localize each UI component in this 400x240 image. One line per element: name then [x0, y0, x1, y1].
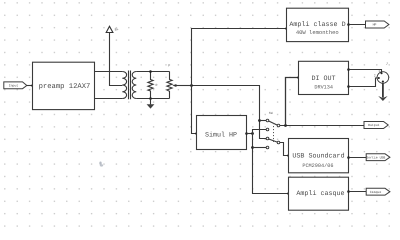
svg-text:PCM2904/06: PCM2904/06 [302, 163, 333, 169]
switch throw contact 2 [266, 128, 269, 131]
svg-text:40W lemontheo: 40W lemontheo [296, 29, 339, 36]
junction node secondary bottom at R [149, 97, 152, 100]
svg-text:DI OUT: DI OUT [311, 75, 335, 83]
wire Simul HP output [247, 133, 253, 135]
block Ampli classe D [287, 8, 349, 41]
switch throw contact 3 [266, 137, 269, 140]
power symbol B+ [106, 26, 118, 32]
wire secondary bottom rail [136, 98, 169, 100]
svg-text:SW: SW [269, 111, 273, 115]
block USB Soundcard [289, 139, 349, 173]
switch blade A [269, 121, 278, 125]
svg-text:Casque: Casque [370, 190, 382, 194]
svg-text:Ampli classe D: Ampli classe D [289, 21, 345, 29]
pin dot Simul HP output [245, 132, 248, 135]
svg-text:HP: HP [373, 23, 377, 27]
switch throw contact 1 [266, 119, 269, 122]
switch throw contact 4 [266, 146, 269, 149]
junction tap to throw 4 [251, 146, 254, 149]
wire Ampli casque output to Casque tag [349, 191, 367, 193]
transformer T1 secondary winding [132, 72, 136, 99]
wire stub to throw 1 [260, 120, 267, 122]
svg-text:R: R [156, 83, 158, 87]
wire Ampli classe D output to HP tag [349, 24, 366, 26]
svg-text:USB Soundcard: USB Soundcard [292, 153, 344, 161]
switch pole contact A [277, 124, 280, 127]
block Ampli casque [289, 177, 349, 210]
pin dot USB Soundcard output [347, 156, 350, 159]
svg-text:Simul HP: Simul HP [205, 131, 237, 139]
wire preamp top output to transformer primary [95, 71, 123, 73]
wire pole A to Output tag [280, 125, 364, 127]
wire input to preamp [27, 85, 33, 87]
svg-text:DRV134: DRV134 [314, 84, 333, 90]
svg-text:Ampli casque: Ampli casque [296, 190, 344, 198]
pin dot Ampli classe D output [347, 23, 350, 26]
ground under XLR [378, 83, 387, 101]
resistor R [148, 72, 158, 99]
svg-text:J: J [386, 62, 388, 66]
svg-text:Sortie USB: Sortie USB [366, 155, 385, 159]
connector XLR jack [374, 62, 389, 84]
stray ink smudge [99, 162, 103, 167]
potentiometer P [167, 64, 172, 99]
connector Casque tag [366, 188, 390, 195]
wire Simul out riser to throw 2 [253, 130, 267, 134]
wire secondary top rail [136, 71, 169, 73]
junction Simul out tee [251, 132, 254, 135]
potentiometer wiper arrow [172, 84, 191, 87]
svg-text:1: 1 [378, 69, 380, 73]
pin dot Simul HP input [195, 132, 198, 135]
wire Simul out down to Ampli casque [253, 134, 289, 194]
block Simul HP [197, 116, 247, 150]
block preamp 12AX7 [33, 62, 95, 109]
wire wiper bus to switch throws 1 and 3 [192, 86, 267, 139]
svg-text:B+: B+ [115, 28, 119, 33]
pin dot DI OUT output 1 [347, 68, 350, 71]
wire stub to throw 4 [253, 147, 267, 149]
svg-text:Output: Output [368, 123, 380, 127]
pin dot DI OUT input [297, 76, 300, 79]
junction pole A riser [284, 124, 287, 127]
junction bus to throw 1 [258, 119, 261, 122]
switch blade B [269, 139, 278, 142]
wire USB output to Sortie USB tag [349, 157, 367, 159]
ground under R [147, 99, 155, 109]
wire pole B to USB Soundcard input [280, 143, 289, 156]
svg-text:Input: Input [9, 84, 19, 88]
transformer T1 core [129, 71, 131, 100]
junction wiper tee [190, 84, 193, 87]
svg-text:P: P [168, 64, 170, 69]
wire to Simul HP input [192, 86, 197, 134]
wire B+ to primary center tap [110, 33, 123, 86]
wire preamp bottom output to transformer primary [95, 98, 123, 100]
wire DI OUT pin1 to XLR top pin [349, 70, 382, 73]
connector Output tag [364, 122, 388, 129]
svg-text:2: 2 [374, 73, 376, 77]
pin dot Ampli casque output [347, 190, 350, 193]
pin dot Ampli casque input [287, 192, 290, 195]
pin dot DI OUT output 2 [347, 85, 350, 88]
pin dot USB Soundcard input [287, 154, 290, 157]
pin dot Ampli classe D input [285, 27, 288, 30]
switch gang dashed link [273, 123, 275, 142]
transformer T1 primary winding [122, 72, 126, 99]
pin dot preamp input [31, 84, 34, 87]
connector Sortie USB tag [366, 154, 390, 161]
junction node secondary top at R [149, 70, 152, 73]
connector HP tag [366, 21, 389, 28]
wire to Ampli classe D input [192, 29, 287, 86]
svg-text:preamp 12AX7: preamp 12AX7 [39, 83, 91, 91]
connector Input tag [4, 82, 27, 89]
wire DI OUT pin2 to XLR left pin [349, 78, 378, 87]
wire riser to DI OUT input [286, 78, 299, 126]
block DI OUT [299, 61, 349, 94]
switch pole contact B [277, 141, 280, 144]
